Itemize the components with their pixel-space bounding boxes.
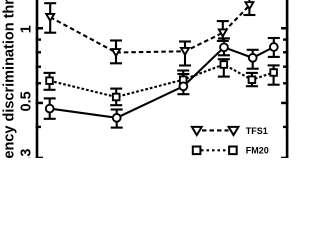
circle marker pt6: [270, 43, 278, 51]
right axis major tick 0.3: [281, 157, 288, 160]
left axis major tick 0.3: [36, 157, 43, 160]
right axis major tick 0.5: [281, 102, 288, 105]
svg-text:Frequency discrimination thres: Frequency discrimination threshold: [2, 0, 18, 158]
right axis minor tick 0.8: [283, 51, 288, 53]
TFS1 triangle marker pt3: [181, 48, 189, 55]
left axis minor tick 0.8: [36, 51, 41, 53]
error bar circle pt3: [177, 74, 189, 94]
right axis minor tick 0.4: [283, 126, 288, 128]
FM20 square marker pt5: [249, 76, 256, 83]
FM20 square marker pt4: [221, 61, 228, 68]
TFS1 dashed polyline: [50, 0, 261, 53]
legend FM20 square right: [229, 147, 237, 155]
left axis minor tick 0.9: [36, 38, 41, 40]
circle marker pt5: [249, 54, 257, 62]
error bar FM20 pt6: [268, 65, 280, 84]
error bar FM20 pt4: [218, 59, 230, 76]
error bar circle pt4: [218, 38, 230, 55]
svg-text:0.5: 0.5: [18, 91, 34, 111]
error bar FM20 pt5: [246, 73, 258, 86]
right axis major tick 1: [281, 27, 288, 30]
circle marker pt3: [180, 82, 188, 90]
legend TFS1 triangle left: [192, 127, 202, 135]
circle marker pt2: [113, 114, 121, 122]
TFS1 triangle marker pt1: [46, 14, 54, 21]
error bar TFS1 pt3: [179, 42, 191, 66]
left axis major tick 0.5: [36, 102, 43, 105]
circle marker pt4: [220, 43, 228, 51]
right axis minor tick 0.9: [283, 38, 288, 40]
legend TFS1 triangle right: [229, 127, 239, 135]
left axis minor tick 0.4: [36, 126, 41, 128]
TFS1 triangle marker pt5: [245, 2, 253, 9]
svg-text:0.3: 0.3: [18, 149, 34, 158]
error bar TFS1 pt1: [44, 3, 56, 33]
error bar circle pt1: [44, 98, 56, 118]
error bar FM20 pt3: [177, 71, 189, 90]
left axis major tick 1: [36, 27, 43, 30]
legend FM20 square left: [193, 147, 201, 155]
error bar circle pt5: [247, 50, 259, 69]
error bar TFS1 pt5: [243, 0, 255, 15]
FM20 dotted polyline: [50, 65, 274, 98]
right axis minor tick 0.7: [283, 66, 288, 68]
svg-text:1: 1: [18, 25, 34, 33]
FM20 square marker pt2: [113, 94, 120, 101]
right axis minor tick 0.6: [283, 82, 288, 84]
svg-text:FM20: FM20: [246, 146, 269, 156]
left y-axis line: [36, 0, 39, 158]
FM20 square marker pt3: [180, 76, 187, 83]
FM20 square marker pt1: [46, 77, 53, 84]
error bar FM20 pt1: [44, 73, 56, 90]
left axis minor tick 0.6: [36, 82, 41, 84]
FM20 square marker pt6: [270, 69, 277, 76]
error bar FM20 pt2: [110, 89, 122, 106]
error bar circle pt6: [268, 38, 280, 57]
circle marker pt1: [46, 105, 54, 113]
TFS1 triangle marker pt2: [112, 49, 120, 56]
error bar circle pt2: [111, 110, 123, 128]
legend FM20 dotted line: [201, 149, 229, 151]
TFS1 triangle marker pt4: [219, 29, 227, 36]
left axis minor tick 0.7: [36, 66, 41, 68]
error bar TFS1 pt2: [110, 41, 122, 64]
circles solid polyline: [50, 47, 274, 118]
right y-axis line: [286, 0, 289, 158]
error bar TFS1 pt4: [217, 21, 229, 41]
svg-text:TFS1: TFS1: [246, 126, 268, 136]
legend TFS1 dashed line: [202, 129, 229, 131]
